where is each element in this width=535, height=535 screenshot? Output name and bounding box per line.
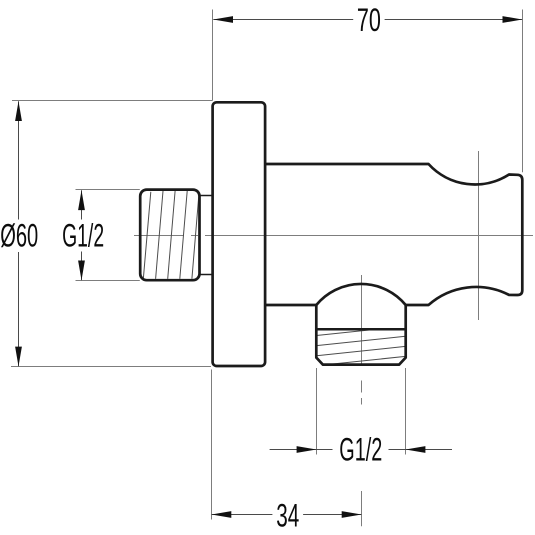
svg-text:70: 70 — [357, 2, 381, 38]
svg-text:34: 34 — [276, 497, 299, 533]
svg-text:G1/2: G1/2 — [62, 218, 104, 254]
svg-text:Ø60: Ø60 — [0, 218, 38, 254]
svg-text:G1/2: G1/2 — [339, 431, 382, 467]
